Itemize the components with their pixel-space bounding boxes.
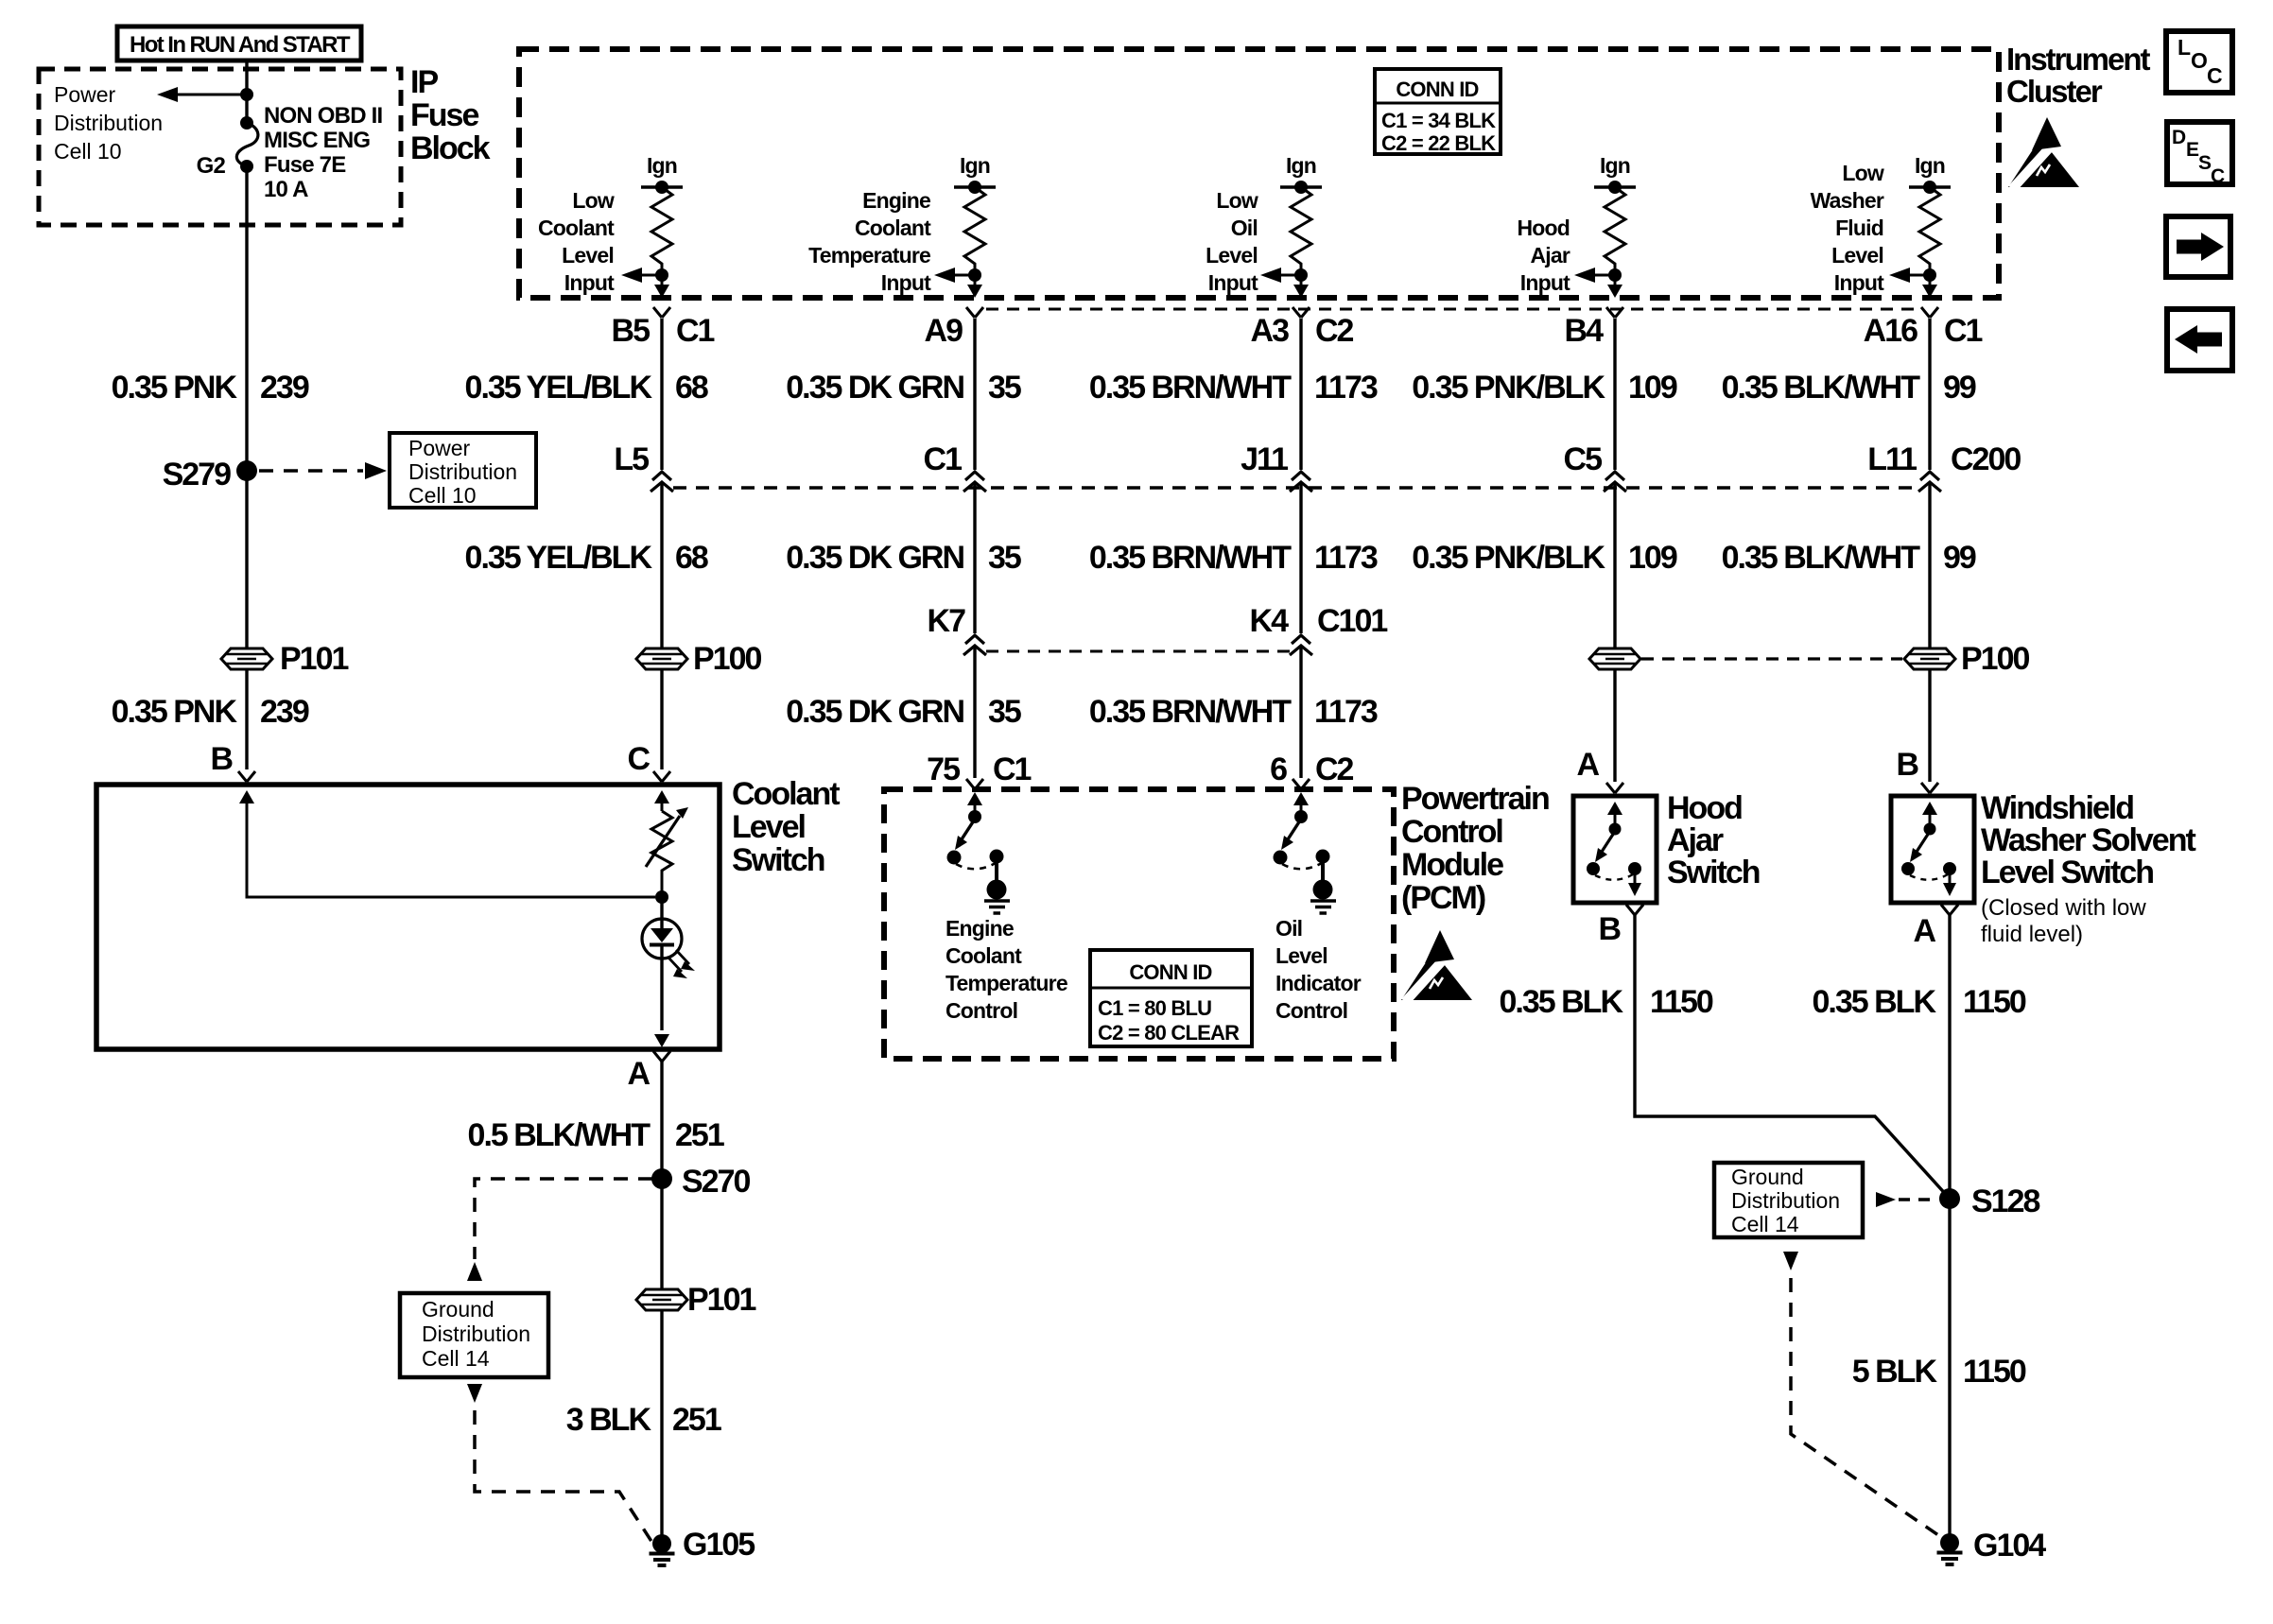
svg-text:0.35 BLK: 0.35 BLK [1813, 984, 1937, 1020]
svg-text:Coolant: Coolant [732, 776, 840, 812]
junction inside switch [655, 890, 668, 904]
switch: washer fluid level contact [1901, 802, 1956, 896]
wire: 0.35 DK GRN 35 [973, 319, 976, 778]
inline connector P100 (wire 6) [1904, 648, 1955, 669]
svg-text:Washer: Washer [1811, 188, 1884, 213]
svg-text:G2: G2 [197, 153, 226, 179]
resistor Low Washer Fluid Level Input in instrument cluster [1909, 181, 1951, 275]
svg-text:Fuse 7E: Fuse 7E [264, 152, 346, 178]
svg-text:Input: Input [1834, 270, 1884, 295]
svg-text:IP: IP [410, 64, 438, 100]
arrow+dash: ground distribution to S128 [1876, 1192, 1935, 1207]
svg-text:0.35 DK GRN: 0.35 DK GRN [786, 694, 963, 730]
svg-text:K7: K7 [928, 603, 966, 639]
svg-text:Fuse: Fuse [410, 97, 478, 133]
resistor Hood Ajar Input in instrument cluster [1594, 181, 1636, 275]
wire: 0.5 BLK/WHT 251 [660, 1062, 663, 1544]
text: Engine Coolant Temperature Control [946, 916, 1067, 1023]
svg-text:Engine: Engine [946, 916, 1014, 941]
svg-text:Fluid: Fluid [1835, 216, 1883, 240]
inline connector P100 (wire 5) [1589, 648, 1640, 669]
svg-text:5 BLK: 5 BLK [1852, 1354, 1938, 1390]
box: Power Distribution Cell 10 [390, 433, 536, 508]
svg-text:Level: Level [732, 809, 805, 845]
svg-text:NON OBD II: NON OBD II [264, 103, 382, 129]
resistor Low Oil Level Input in instrument cluster [1280, 181, 1322, 275]
svg-text:109: 109 [1628, 540, 1677, 576]
inline connector K4 (C101) [1290, 635, 1312, 655]
dashed arrow: S279 to Power Distribution Cell 10 [259, 462, 387, 479]
wire: hood ajar switch B to S128 [1635, 915, 1950, 1199]
pin B (hood ajar switch, bottom) [1626, 905, 1643, 915]
svg-text:A16: A16 [1864, 313, 1917, 349]
connector pin below cluster (Low Oil Level Input) [1293, 307, 1310, 318]
connector pin below cluster (Engine Coolant Temperature Input) [966, 307, 983, 318]
svg-text:Temperature: Temperature [946, 971, 1067, 995]
box: IP Fuse Block (dashed) [39, 69, 401, 225]
text: (Closed with low fluid level) [1981, 895, 2146, 947]
svg-text:A: A [1913, 913, 1935, 949]
svg-text:75: 75 [927, 752, 960, 787]
svg-text:1173: 1173 [1314, 540, 1378, 576]
connector pin below cluster (Low Coolant Level Input) [653, 307, 670, 318]
arrow: down from ground distribution box [467, 1384, 482, 1403]
svg-text:0.35 BLK/WHT: 0.35 BLK/WHT [1722, 370, 1921, 406]
svg-text:C101: C101 [1317, 603, 1387, 639]
svg-text:Hood: Hood [1667, 790, 1742, 826]
inline connector L11 [1918, 472, 1941, 492]
dashed line: cluster connector boundary [986, 308, 1919, 311]
svg-text:10 A: 10 A [264, 177, 308, 202]
dashed line: S270 to ground distribution [475, 1179, 652, 1259]
text: Coolant Level Switch [732, 776, 840, 878]
svg-text:Ground: Ground [422, 1297, 495, 1322]
dashed line: ground distribution to G104 [1791, 1278, 1938, 1535]
svg-text:C: C [627, 741, 650, 777]
svg-text:Washer Solvent: Washer Solvent [1981, 822, 2195, 858]
svg-text:fluid level): fluid level) [1981, 922, 2083, 947]
switch: engine coolant temperature control [947, 792, 1011, 913]
dashed line: ground distribution to G105 [475, 1410, 652, 1543]
svg-text:B: B [1896, 747, 1918, 783]
svg-text:Ign: Ign [960, 153, 990, 178]
text: fuse description [264, 103, 382, 202]
svg-text:P100: P100 [693, 641, 761, 677]
svg-text:3 BLK: 3 BLK [566, 1402, 652, 1438]
svg-text:(PCM): (PCM) [1401, 880, 1485, 916]
arrow: Hood Ajar Input input tap [1574, 268, 1622, 298]
svg-text:Input: Input [1208, 270, 1258, 295]
svg-text:A9: A9 [925, 313, 963, 349]
symbol: ESD warning (instrument cluster) [2008, 117, 2079, 189]
box: Coolant Level Switch [96, 785, 720, 1049]
LED indicator [642, 897, 695, 1030]
arrow: to Power Distribution Cell 10 [157, 87, 247, 102]
label box: Hot In RUN And START [117, 26, 361, 60]
dashed line: P100 tie [1641, 657, 1902, 660]
svg-text:A: A [1576, 747, 1599, 783]
svg-text:Ajar: Ajar [1667, 822, 1724, 858]
inline connector L5 [651, 472, 673, 492]
svg-text:L: L [2178, 35, 2191, 60]
resistor Low Coolant Level Input in instrument cluster [641, 181, 683, 275]
svg-text:C1: C1 [993, 752, 1032, 787]
svg-text:B5: B5 [612, 313, 651, 349]
svg-text:Ign: Ign [1600, 153, 1630, 178]
svg-text:0.35 PNK: 0.35 PNK [112, 370, 238, 406]
wire: 0.35 YEL/BLK 68 [660, 319, 663, 769]
svg-text:0.35 YEL/BLK: 0.35 YEL/BLK [465, 370, 653, 406]
svg-text:A3: A3 [1251, 313, 1290, 349]
svg-text:1173: 1173 [1314, 694, 1378, 730]
svg-text:C1: C1 [1944, 313, 1983, 349]
box: Ground Distribution Cell 14 (right) [1714, 1163, 1863, 1237]
svg-text:251: 251 [672, 1402, 721, 1438]
svg-text:Instrument: Instrument [2006, 42, 2151, 77]
ground G104 [1937, 1533, 1963, 1564]
svg-text:CONN ID: CONN ID [1396, 78, 1478, 101]
svg-text:D: D [2172, 127, 2186, 148]
arrow: exit to pin A [654, 1034, 669, 1047]
arrow: up to ground distribution box [467, 1262, 482, 1281]
svg-text:Control: Control [946, 998, 1017, 1023]
inline connector J11 [1290, 472, 1312, 492]
svg-text:O: O [2191, 48, 2207, 73]
svg-text:Level: Level [1206, 243, 1258, 268]
variable resistor (coolant sensor) [646, 807, 688, 897]
svg-text:Block: Block [410, 130, 491, 166]
svg-text:P101: P101 [687, 1282, 755, 1318]
svg-text:G104: G104 [1973, 1528, 2046, 1564]
svg-text:L11: L11 [1867, 441, 1917, 477]
svg-text:Ajar: Ajar [1530, 243, 1570, 268]
text: Instrument Cluster [2006, 42, 2151, 109]
arrow: Low Washer Fluid Level Input input tap [1889, 268, 1937, 298]
svg-text:0.35 BRN/WHT: 0.35 BRN/WHT [1089, 370, 1292, 406]
wire: 0.35 BRN/WHT 1173 [1299, 319, 1302, 778]
wire: feed from Hot In RUN box into fuse block [245, 60, 248, 123]
box: CONN ID (PCM) [1090, 950, 1252, 1046]
wire: 0.35 PNK 239 (P101 to coolant switch B) [245, 669, 248, 769]
svg-text:Cell 14: Cell 14 [1731, 1212, 1799, 1236]
inline connector P101 (wire 1) [221, 648, 272, 669]
svg-text:Hot In RUN And START: Hot In RUN And START [130, 32, 351, 58]
svg-text:S270: S270 [682, 1164, 750, 1200]
svg-text:Distribution: Distribution [422, 1322, 530, 1346]
svg-text:P100: P100 [1961, 641, 2029, 677]
splice S128 [1939, 1188, 1960, 1209]
switch: hood ajar contact [1587, 802, 1641, 896]
svg-text:Switch: Switch [732, 842, 824, 878]
wire: 0.35 PNK/BLK 109 [1613, 319, 1616, 782]
svg-text:S128: S128 [1971, 1183, 2039, 1219]
svg-text:Ign: Ign [647, 153, 677, 178]
arrow: Engine Coolant Temperature Input input tap [934, 268, 982, 298]
text: Engine Coolant Temperature Input [808, 188, 931, 295]
svg-text:Ground: Ground [1731, 1165, 1804, 1189]
svg-text:0.35 PNK: 0.35 PNK [112, 694, 238, 730]
switch: oil level indicator control [1274, 792, 1337, 913]
icon: DESC [2167, 122, 2232, 187]
svg-text:Distribution: Distribution [408, 459, 517, 484]
svg-text:C200: C200 [1951, 441, 2021, 477]
svg-text:68: 68 [675, 370, 708, 406]
svg-text:Input: Input [881, 270, 931, 295]
inline connector P101 (lower) [636, 1289, 687, 1310]
icon: arrow left [2167, 309, 2232, 371]
svg-text:(Closed with low: (Closed with low [1981, 895, 2146, 921]
arrow: down from right ground distribution box [1783, 1252, 1798, 1270]
fuse: NON OBD II MISC ENG Fuse 7E 10 A [236, 116, 258, 173]
svg-text:Low: Low [1842, 161, 1883, 185]
svg-text:99: 99 [1943, 370, 1976, 406]
svg-text:C1: C1 [924, 441, 963, 477]
svg-text:1150: 1150 [1650, 984, 1713, 1020]
svg-text:P101: P101 [280, 641, 348, 677]
svg-text:35: 35 [988, 370, 1021, 406]
svg-text:Ign: Ign [1286, 153, 1316, 178]
svg-text:Power: Power [408, 436, 471, 460]
box: Hood Ajar Switch [1573, 796, 1657, 903]
svg-text:Cluster: Cluster [2006, 74, 2103, 109]
svg-text:Temperature: Temperature [808, 243, 930, 268]
svg-text:35: 35 [988, 540, 1021, 576]
svg-text:E: E [2186, 139, 2199, 161]
svg-text:Powertrain: Powertrain [1401, 781, 1549, 817]
svg-text:Distribution: Distribution [1731, 1188, 1840, 1213]
svg-text:CONN ID: CONN ID [1129, 960, 1211, 984]
svg-text:C1 = 34 BLK: C1 = 34 BLK [1381, 109, 1496, 132]
svg-text:Cell 10: Cell 10 [408, 483, 477, 508]
arrow: Low Coolant Level Input input tap [621, 268, 669, 298]
svg-text:1150: 1150 [1963, 1354, 2026, 1390]
svg-text:MISC ENG: MISC ENG [264, 128, 370, 153]
svg-text:Cell 10: Cell 10 [54, 139, 122, 164]
junction on feed wire [240, 88, 253, 101]
svg-text:Control: Control [1275, 998, 1347, 1023]
svg-text:J11: J11 [1241, 441, 1288, 477]
svg-text:C2 = 80 CLEAR: C2 = 80 CLEAR [1098, 1021, 1240, 1045]
box: Ground Distribution Cell 14 (left) [400, 1293, 548, 1377]
svg-text:Control: Control [1401, 814, 1502, 850]
svg-text:Level Switch: Level Switch [1981, 855, 2153, 890]
svg-text:0.35 BRN/WHT: 0.35 BRN/WHT [1089, 694, 1292, 730]
svg-text:35: 35 [988, 694, 1021, 730]
symbol: ESD warning (PCM) [1401, 930, 1472, 1002]
splice S279 [236, 460, 257, 481]
svg-text:99: 99 [1943, 540, 1976, 576]
ground G105 [650, 1534, 675, 1565]
svg-text:251: 251 [675, 1117, 724, 1153]
connector pin below cluster (Low Washer Fluid Level Input) [1921, 307, 1938, 318]
svg-text:Windshield: Windshield [1981, 790, 2133, 826]
box: Instrument Cluster (dashed) [519, 49, 1999, 298]
svg-text:68: 68 [675, 540, 708, 576]
wire: 0.35 PNK 239 (fuse to P101) [245, 166, 248, 648]
svg-text:Level: Level [1831, 243, 1883, 268]
pin A (coolant level switch) [653, 1051, 670, 1062]
svg-text:239: 239 [260, 370, 309, 406]
svg-text:G105: G105 [683, 1527, 755, 1563]
svg-text:C1: C1 [676, 313, 715, 349]
arrow: Low Oil Level Input input tap [1260, 268, 1309, 298]
svg-text:0.5 BLK/WHT: 0.5 BLK/WHT [468, 1117, 651, 1153]
svg-text:Coolant: Coolant [946, 943, 1022, 968]
text: Power Distribution Cell 10 (in fuse block) [54, 82, 163, 164]
svg-text:Low: Low [572, 188, 614, 213]
svg-text:0.35 BLK/WHT: 0.35 BLK/WHT [1722, 540, 1921, 576]
text: Hood Ajar Switch [1667, 790, 1760, 890]
svg-text:L5: L5 [614, 441, 649, 477]
text: Powertrain Control Module (PCM) [1401, 781, 1549, 916]
wire: pin B internal [239, 790, 655, 897]
wire: washer switch A to G104 [1948, 915, 1951, 1543]
svg-text:Level: Level [562, 243, 614, 268]
svg-text:Low: Low [1216, 188, 1258, 213]
svg-text:0.35 DK GRN: 0.35 DK GRN [786, 540, 963, 576]
svg-text:K4: K4 [1250, 603, 1290, 639]
svg-text:C2: C2 [1315, 313, 1354, 349]
svg-text:1150: 1150 [1963, 984, 2026, 1020]
icon: LOC [2166, 31, 2232, 93]
svg-text:0.35 DK GRN: 0.35 DK GRN [786, 370, 963, 406]
box: CONN ID (instrument cluster) [1375, 69, 1501, 155]
svg-text:Engine: Engine [862, 188, 930, 213]
svg-text:Module: Module [1401, 847, 1503, 883]
svg-text:Distribution: Distribution [54, 111, 163, 135]
wire: 0.35 BLK/WHT 99 [1928, 319, 1931, 782]
svg-text:B: B [210, 741, 233, 777]
svg-text:Switch: Switch [1667, 855, 1760, 890]
svg-text:Input: Input [564, 270, 615, 295]
svg-text:Input: Input [1520, 270, 1570, 295]
svg-text:S279: S279 [163, 457, 231, 492]
svg-text:0.35 PNK/BLK: 0.35 PNK/BLK [1412, 370, 1605, 406]
svg-text:109: 109 [1628, 370, 1677, 406]
text: Oil Level Indicator Control [1275, 916, 1362, 1023]
inline connector C5 [1604, 472, 1626, 492]
svg-text:239: 239 [260, 694, 309, 730]
svg-text:S: S [2198, 152, 2212, 174]
svg-text:B4: B4 [1565, 313, 1605, 349]
text: Low Washer Fluid Level Input [1811, 161, 1885, 295]
svg-text:C5: C5 [1564, 441, 1603, 477]
resistor Engine Coolant Temperature Input in instrument cluster [954, 181, 996, 275]
wire: pin C internal [654, 790, 669, 811]
text: Hood Ajar Input [1517, 216, 1570, 295]
text: Low Oil Level Input [1206, 188, 1258, 295]
svg-text:C: C [2207, 63, 2222, 88]
text: Windshield Washer Solvent Level Switch [1981, 790, 2195, 890]
svg-text:Hood: Hood [1517, 216, 1570, 240]
svg-text:A: A [627, 1056, 650, 1092]
inline connector P100 (wire 2) [636, 648, 687, 669]
splice S270 [651, 1168, 672, 1189]
svg-text:Indicator: Indicator [1275, 971, 1362, 995]
pin A (washer level switch, bottom) [1941, 905, 1958, 915]
svg-text:0.35 YEL/BLK: 0.35 YEL/BLK [465, 540, 653, 576]
svg-text:1173: 1173 [1314, 370, 1378, 406]
dashed line: connector C101 [986, 650, 1290, 653]
svg-text:Oil: Oil [1275, 916, 1302, 941]
dashed line: connector C200 row [673, 486, 1917, 490]
svg-text:Ign: Ign [1915, 153, 1945, 178]
icon: arrow right [2166, 216, 2230, 277]
box: Powertrain Control Module (dashed) [884, 789, 1394, 1059]
text: Low Coolant Level Input [538, 188, 615, 295]
svg-text:Oil: Oil [1231, 216, 1258, 240]
inline connector K7 (C101) [963, 635, 986, 655]
svg-text:0.35 BLK: 0.35 BLK [1500, 984, 1624, 1020]
connector pin below cluster (Hood Ajar Input) [1606, 307, 1623, 318]
svg-text:C2 = 22 BLK: C2 = 22 BLK [1381, 131, 1496, 155]
svg-text:C1 = 80 BLU: C1 = 80 BLU [1098, 996, 1211, 1020]
text: IP Fuse Block [410, 64, 491, 166]
svg-text:Level: Level [1275, 943, 1327, 968]
svg-text:Cell 14: Cell 14 [422, 1346, 490, 1371]
inline connector C1 [963, 472, 986, 492]
svg-text:C: C [2211, 165, 2225, 187]
svg-text:Coolant: Coolant [855, 216, 931, 240]
box: Windshield Washer Solvent Level Switch [1891, 796, 1974, 903]
svg-text:B: B [1598, 911, 1621, 947]
svg-text:0.35 BRN/WHT: 0.35 BRN/WHT [1089, 540, 1292, 576]
svg-text:0.35 PNK/BLK: 0.35 PNK/BLK [1412, 540, 1605, 576]
svg-text:Coolant: Coolant [538, 216, 615, 240]
svg-text:6: 6 [1270, 752, 1287, 787]
svg-text:C2: C2 [1315, 752, 1354, 787]
svg-text:Power: Power [54, 82, 116, 107]
